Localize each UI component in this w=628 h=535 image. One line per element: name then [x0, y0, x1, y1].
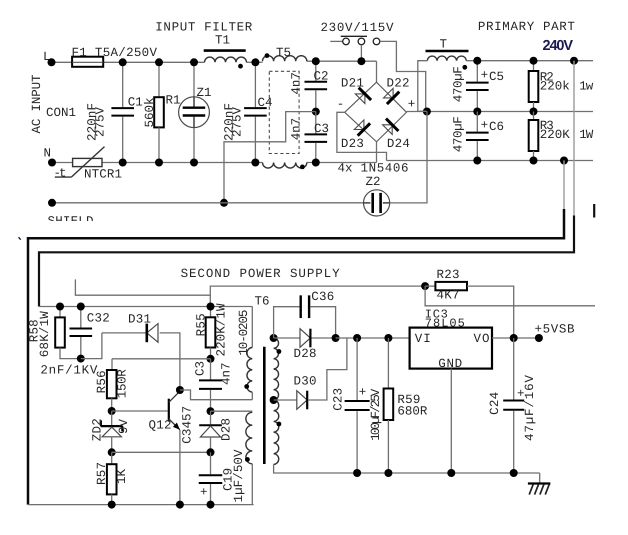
- transformer T5 shield dashed box: [269, 71, 299, 153]
- svg-text:4K7: 4K7: [437, 289, 460, 303]
- capacitor C2: [305, 81, 328, 83]
- wire C32 bottom lead: [80, 337, 82, 359]
- polarity dot T6 feedback: [245, 457, 250, 462]
- svg-text:R55: R55: [194, 313, 208, 336]
- resistor R56: [107, 370, 117, 398]
- svg-text:+: +: [200, 486, 208, 500]
- wire bridge top vertex to rail: [376, 61, 378, 82]
- wire ZD2 bottom lead: [111, 437, 113, 453]
- wire D28 anode lead: [274, 337, 300, 339]
- svg-text:T6: T6: [255, 294, 270, 308]
- wire C19 bottom lead: [210, 484, 212, 505]
- node C2 top: [312, 57, 320, 65]
- wire R3 bottom lead: [533, 151, 535, 161]
- wire C36 right lead: [310, 307, 335, 338]
- node shield terminal: [48, 199, 56, 207]
- wire frame minus drop gray: [563, 161, 565, 210]
- capacitor C4: [244, 107, 267, 109]
- switch 230V/115V: [330, 40, 343, 42]
- wire N rail left: [52, 162, 263, 164]
- fuse F1: [72, 57, 103, 67]
- polarity dot T5 upper: [265, 53, 270, 58]
- wire secondary bottom rail: [28, 504, 254, 506]
- node C3 bottom: [312, 159, 320, 167]
- wire R55 top lead: [210, 307, 212, 318]
- wire C1 top lead: [122, 62, 124, 107]
- capacitor C5 electrolytic: [466, 82, 489, 84]
- svg-text:275V: 275V: [231, 107, 245, 137]
- svg-text:D30: D30: [294, 374, 317, 388]
- wire GND pin to ground rail: [450, 369, 452, 473]
- node shield junction: [220, 199, 228, 207]
- wire R55 bottom lead: [210, 348, 212, 359]
- svg-text:C2: C2: [314, 70, 329, 84]
- wire ZD2 top lead: [111, 411, 113, 425]
- wire D31 anode lead: [102, 332, 146, 334]
- surge arrester Z1: [179, 97, 210, 128]
- svg-text:68K/1W: 68K/1W: [38, 311, 52, 357]
- svg-text:C36: C36: [311, 290, 334, 304]
- svg-text:C6: C6: [489, 120, 504, 134]
- node C4 bottom: [251, 159, 259, 167]
- wire C23 top lead: [356, 338, 358, 400]
- resistor R2: [529, 71, 539, 102]
- svg-text:C5: C5: [489, 70, 504, 84]
- svg-text:D28: D28: [220, 418, 234, 441]
- node C5 top: [473, 57, 481, 65]
- wire C2 bottom lead: [315, 90, 317, 111]
- node R2 top: [530, 57, 538, 65]
- bridge diamond edges: [345, 82, 407, 142]
- svg-text:VI: VI: [415, 332, 431, 346]
- svg-text:1W: 1W: [579, 128, 593, 142]
- svg-text:+: +: [481, 69, 489, 83]
- svg-text:9V: 9V: [117, 419, 131, 434]
- resistor R23: [435, 282, 467, 290]
- svg-text:1w: 1w: [579, 80, 593, 94]
- diode D21: [355, 94, 365, 104]
- polarity dot T1: [238, 64, 243, 69]
- wire T6 feedback top lead: [211, 410, 253, 412]
- svg-text:+: +: [408, 98, 416, 112]
- wire D31 cathode to collector: [160, 333, 180, 390]
- svg-text:C3: C3: [314, 122, 329, 136]
- wire R2 bottom lead: [533, 102, 535, 112]
- svg-text:+: +: [481, 119, 489, 133]
- wire Z1 top lead: [193, 62, 195, 97]
- resistor R57: [107, 464, 117, 494]
- svg-text:C3457: C3457: [180, 406, 194, 444]
- wire R57 top lead: [111, 452, 113, 464]
- node C1 top: [119, 58, 127, 66]
- svg-text:R1: R1: [166, 94, 181, 108]
- wire bridge plus to middle rail: [407, 111, 594, 113]
- transformer T6 feedback winding: [246, 412, 252, 464]
- resistor R1: [154, 97, 164, 127]
- node C23 top: [353, 334, 361, 342]
- node R23 left junction: [421, 282, 429, 290]
- svg-text:D24: D24: [387, 137, 410, 151]
- transformer T6 secondary winding upper: [274, 338, 279, 400]
- transistor Q12: [168, 399, 170, 422]
- wire top rail right section: [466, 60, 593, 62]
- svg-text:+: +: [359, 386, 367, 400]
- wire output plus rail: [336, 337, 410, 339]
- node R2 bottom: [530, 108, 538, 116]
- capacitor C23 electrolytic: [345, 400, 370, 402]
- svg-text:4n7: 4n7: [289, 118, 303, 141]
- wire bridge bottom vertex to N rail: [376, 142, 378, 163]
- svg-text:C1: C1: [128, 95, 143, 109]
- wire R56 bottom lead: [111, 398, 113, 411]
- wire R58 bottom lead: [60, 348, 81, 359]
- capacitor C36: [300, 295, 302, 318]
- node C32 top: [77, 303, 85, 311]
- capacitor C19 electrolytic: [199, 474, 223, 476]
- inductor T1 core bar: [204, 49, 246, 52]
- svg-text:GND: GND: [438, 357, 462, 371]
- zener diode ZD2: [101, 425, 123, 427]
- wire D30 cathode path: [308, 338, 347, 400]
- wire secondary plus rail: [39, 306, 252, 308]
- wire D28 cathode lead: [312, 337, 336, 339]
- wire R56 top lead: [111, 359, 113, 370]
- wire bridge minus path: [337, 112, 387, 160]
- artifact mark: [19, 237, 21, 240]
- node R1 top: [155, 58, 163, 66]
- svg-text:Q12: Q12: [149, 418, 172, 432]
- svg-text:Z1: Z1: [197, 86, 212, 100]
- node R59 bottom: [384, 469, 392, 477]
- diode D22: [384, 88, 394, 98]
- polarity dot T6 secondary lower: [277, 422, 282, 427]
- svg-text:SECOND POWER SUPPLY: SECOND POWER SUPPLY: [181, 267, 340, 281]
- wire R1 top lead: [158, 62, 160, 97]
- wire C1 bottom lead: [122, 117, 124, 163]
- svg-text:D23: D23: [341, 137, 364, 151]
- wire standby output stub: [425, 286, 595, 306]
- svg-text:4n7: 4n7: [289, 72, 303, 95]
- wire C4 bottom lead: [254, 117, 256, 163]
- ground symbol: [539, 473, 541, 483]
- svg-text:T5: T5: [276, 46, 291, 60]
- wire D28v top lead: [210, 411, 212, 424]
- wire N rail T5 to bridge: [307, 162, 377, 164]
- wire C2 top lead: [315, 61, 317, 81]
- wire L rail T1 to T5: [247, 61, 263, 63]
- wire zener row: [112, 451, 211, 453]
- node C32 bottom: [77, 355, 85, 363]
- wire R55 junction to R56: [112, 358, 211, 360]
- svg-text:10-0205: 10-0205: [237, 310, 251, 356]
- regulator IC3 78L05: [410, 328, 492, 369]
- node Z1 bottom: [190, 159, 198, 167]
- diode D28 vertical: [199, 424, 222, 426]
- polarity dot T6 secondary upper: [277, 349, 282, 354]
- wire L rail left: [52, 61, 205, 63]
- svg-text:4n7: 4n7: [219, 363, 233, 386]
- node C3 bottom: [207, 407, 215, 415]
- wire T6 feedback bottom lead: [251, 464, 253, 505]
- svg-text:230V/115V: 230V/115V: [321, 21, 394, 35]
- wire frame minus thick: [28, 209, 564, 505]
- wire standby plus drop gray: [573, 61, 575, 216]
- transformer T5 upper winding: [263, 56, 307, 62]
- wire C6 bottom lead: [476, 141, 478, 161]
- wire stray segment: [593, 204, 595, 218]
- svg-text:2nF/1KV: 2nF/1KV: [40, 364, 97, 378]
- wire D28v bottom lead: [210, 437, 212, 452]
- node switch rail junction: [357, 57, 365, 65]
- svg-text:C3: C3: [193, 361, 207, 376]
- wire T left lead to doubler node: [418, 61, 428, 112]
- node D28v bottom: [207, 448, 215, 456]
- svg-text:VO: VO: [474, 332, 490, 346]
- node DC minus to frame line: [560, 157, 568, 165]
- resistor R55: [206, 317, 216, 347]
- wire rail to staircase: [209, 295, 211, 306]
- diode D30: [297, 391, 307, 410]
- svg-text:220k: 220k: [540, 80, 570, 94]
- node collector junction: [176, 386, 184, 394]
- node Z1 top: [190, 58, 198, 66]
- node D28 output junction: [332, 334, 340, 342]
- capacitor C3 base coupling: [199, 379, 222, 381]
- wire R23 left lead: [425, 285, 435, 287]
- svg-text:275V: 275V: [94, 107, 108, 137]
- inductor T winding: [427, 56, 466, 61]
- node R58 top: [56, 303, 64, 311]
- node C1 bottom: [119, 159, 127, 167]
- svg-text:C24: C24: [488, 392, 502, 415]
- diode D24: [383, 125, 393, 135]
- wire collector to T6 primary: [180, 390, 252, 400]
- wire R23 feed staircase: [75, 279, 425, 295]
- svg-text:D22: D22: [387, 77, 410, 91]
- node VO junction: [510, 334, 518, 342]
- diode D23: [354, 120, 364, 130]
- wire D30 anode lead: [274, 399, 297, 401]
- svg-text:D31: D31: [128, 313, 151, 327]
- svg-text:R23: R23: [437, 268, 460, 282]
- wire R23 right lead: [467, 286, 514, 338]
- node R56 bottom base node: [108, 407, 116, 415]
- node R59 top: [384, 334, 392, 342]
- node C2 C3 midpoint: [312, 108, 320, 116]
- wire T6 secondary bottom to ground rail: [274, 464, 540, 473]
- wire Z1 bottom lead: [193, 128, 195, 163]
- wire C3 top lead: [315, 112, 317, 134]
- svg-text:47µF/16V: 47µF/16V: [523, 375, 537, 441]
- svg-text:T: T: [440, 38, 448, 52]
- svg-text:-t: -t: [54, 167, 67, 181]
- wire C24 top lead: [513, 338, 515, 400]
- wire emitter to bottom rail: [179, 430, 181, 505]
- node T6 secondary top: [270, 334, 278, 342]
- svg-text:CON1: CON1: [46, 106, 76, 120]
- svg-text:150R: 150R: [115, 369, 129, 398]
- node R1 bottom: [155, 159, 163, 167]
- capacitor C3 y-cap: [305, 133, 328, 135]
- svg-text:470µF: 470µF: [451, 66, 465, 102]
- wire DC minus rail: [387, 160, 594, 162]
- svg-text:Z2: Z2: [366, 175, 381, 189]
- node ZD2 bottom: [108, 448, 116, 456]
- svg-text:560k: 560k: [143, 98, 157, 128]
- svg-text:R56: R56: [95, 370, 109, 393]
- svg-text:D21: D21: [341, 77, 364, 91]
- wire T6 primary top lead: [251, 307, 253, 348]
- svg-text:F1 T5A/250V: F1 T5A/250V: [72, 46, 158, 60]
- wire C5 top lead: [476, 61, 478, 82]
- diode D31: [147, 324, 158, 343]
- wire C4 top lead: [254, 62, 256, 107]
- svg-text:PRIMARY PART: PRIMARY PART: [478, 20, 575, 34]
- wire C24 bottom lead: [513, 411, 515, 473]
- resistor R58: [55, 317, 65, 347]
- wire R58 top lead: [59, 307, 61, 318]
- label SHIELD clipped: [48, 215, 94, 229]
- svg-text:1N5406: 1N5406: [361, 161, 409, 175]
- wire R2 top lead: [533, 61, 535, 71]
- capacitor C32: [70, 328, 93, 330]
- wire T6 primary bottom lead: [251, 392, 253, 400]
- wire R3 top lead: [533, 112, 535, 121]
- wire R1 bottom lead: [158, 127, 160, 162]
- svg-text:C4: C4: [258, 96, 273, 110]
- svg-text:T1: T1: [215, 33, 230, 47]
- svg-text:C32: C32: [87, 311, 110, 325]
- svg-text:220K/1W: 220K/1W: [214, 303, 228, 356]
- svg-text:N: N: [44, 147, 52, 161]
- node top rail to standby line: [570, 57, 578, 65]
- capacitor C24 electrolytic: [503, 400, 524, 402]
- wire C6 top lead: [476, 112, 478, 132]
- wire T6 top to C36: [274, 307, 300, 338]
- node +5VSB terminal: [535, 334, 543, 342]
- wire top rail T5 to bridge: [307, 60, 377, 62]
- node GND pin bottom: [447, 469, 455, 477]
- svg-text:D28: D28: [294, 347, 317, 361]
- wire C3 bottom lead: [315, 143, 317, 163]
- svg-text:+5VSB: +5VSB: [535, 322, 575, 336]
- node C4 top: [251, 58, 259, 66]
- wire R59 top lead: [387, 338, 389, 389]
- node T6 secondary tap: [270, 396, 278, 404]
- polarity dot T: [462, 65, 467, 70]
- node N terminal: [48, 159, 56, 167]
- diode D28: [300, 329, 310, 348]
- wire Z2 to doubler node: [390, 112, 427, 203]
- node C23 bottom: [353, 469, 361, 477]
- wire C5 bottom lead: [476, 91, 478, 112]
- node doubler junction: [423, 108, 431, 116]
- wire R57 bottom lead: [111, 494, 113, 504]
- svg-text:1µF/50V: 1µF/50V: [232, 449, 246, 502]
- svg-text:240V: 240V: [543, 38, 574, 54]
- polarity dot T6 primary: [244, 384, 249, 389]
- wire R59 bottom lead: [387, 420, 389, 473]
- resistor R3: [529, 120, 539, 151]
- svg-text:-: -: [337, 98, 345, 112]
- svg-text:78L05: 78L05: [425, 317, 465, 331]
- transformer T6 secondary winding lower: [274, 400, 279, 464]
- wire C23 bottom lead: [356, 411, 358, 473]
- svg-text:ZD2: ZD2: [90, 418, 104, 441]
- node C5 bottom midpoint: [473, 108, 481, 116]
- wire y-cap midpoint to shield: [224, 112, 316, 203]
- node L terminal: [48, 58, 56, 66]
- wire C19 top lead: [210, 452, 212, 474]
- svg-text:470µF: 470µF: [451, 116, 465, 152]
- node R55 bottom: [207, 355, 215, 363]
- polarity dot T5 lower: [300, 165, 305, 170]
- svg-text:680R: 680R: [397, 404, 427, 418]
- node C24 bottom: [510, 469, 518, 477]
- surge arrester Z2: [364, 190, 390, 216]
- wire base wire: [112, 410, 168, 412]
- capacitor C1: [111, 107, 134, 109]
- node C19 bottom: [207, 501, 215, 509]
- svg-text:100µF/25V: 100µF/25V: [369, 388, 383, 440]
- node R3 bottom: [530, 157, 538, 165]
- transformer T6 primary winding: [247, 348, 252, 393]
- wire switch right to doubler node: [380, 41, 426, 111]
- svg-text:4x: 4x: [338, 161, 353, 175]
- thermistor NTCR1: [73, 158, 102, 166]
- node R55 top: [207, 303, 215, 311]
- capacitor C6 electrolytic: [466, 132, 489, 134]
- wire C32 junction to D31: [81, 333, 102, 359]
- inductor T core bar: [426, 50, 469, 53]
- wire shield line: [52, 202, 364, 204]
- transformer T5 lower winding: [263, 163, 307, 169]
- node R57 bottom: [108, 501, 116, 509]
- node C6 bottom: [473, 157, 481, 165]
- wire C3 top lead: [210, 359, 212, 380]
- svg-text:NTCR1: NTCR1: [84, 168, 122, 182]
- inductor T1 winding: [205, 57, 247, 62]
- svg-text:220K: 220K: [540, 128, 570, 142]
- svg-text:1K: 1K: [115, 469, 129, 484]
- wire C32 top lead: [80, 307, 82, 328]
- svg-text:C23: C23: [332, 388, 346, 411]
- wire C3 bottom lead: [210, 390, 212, 411]
- wire standby plus drop black: [39, 216, 574, 307]
- node emitter bottom: [176, 501, 184, 509]
- svg-text:AC INPUT: AC INPUT: [30, 74, 44, 133]
- svg-text:R57: R57: [95, 462, 109, 485]
- svg-text:INPUT FILTER: INPUT FILTER: [155, 21, 252, 35]
- wire switch middle to rail: [360, 45, 362, 62]
- resistor R59: [384, 389, 394, 421]
- transformer T6 core bar: [263, 347, 266, 464]
- wire VO to output: [492, 337, 539, 339]
